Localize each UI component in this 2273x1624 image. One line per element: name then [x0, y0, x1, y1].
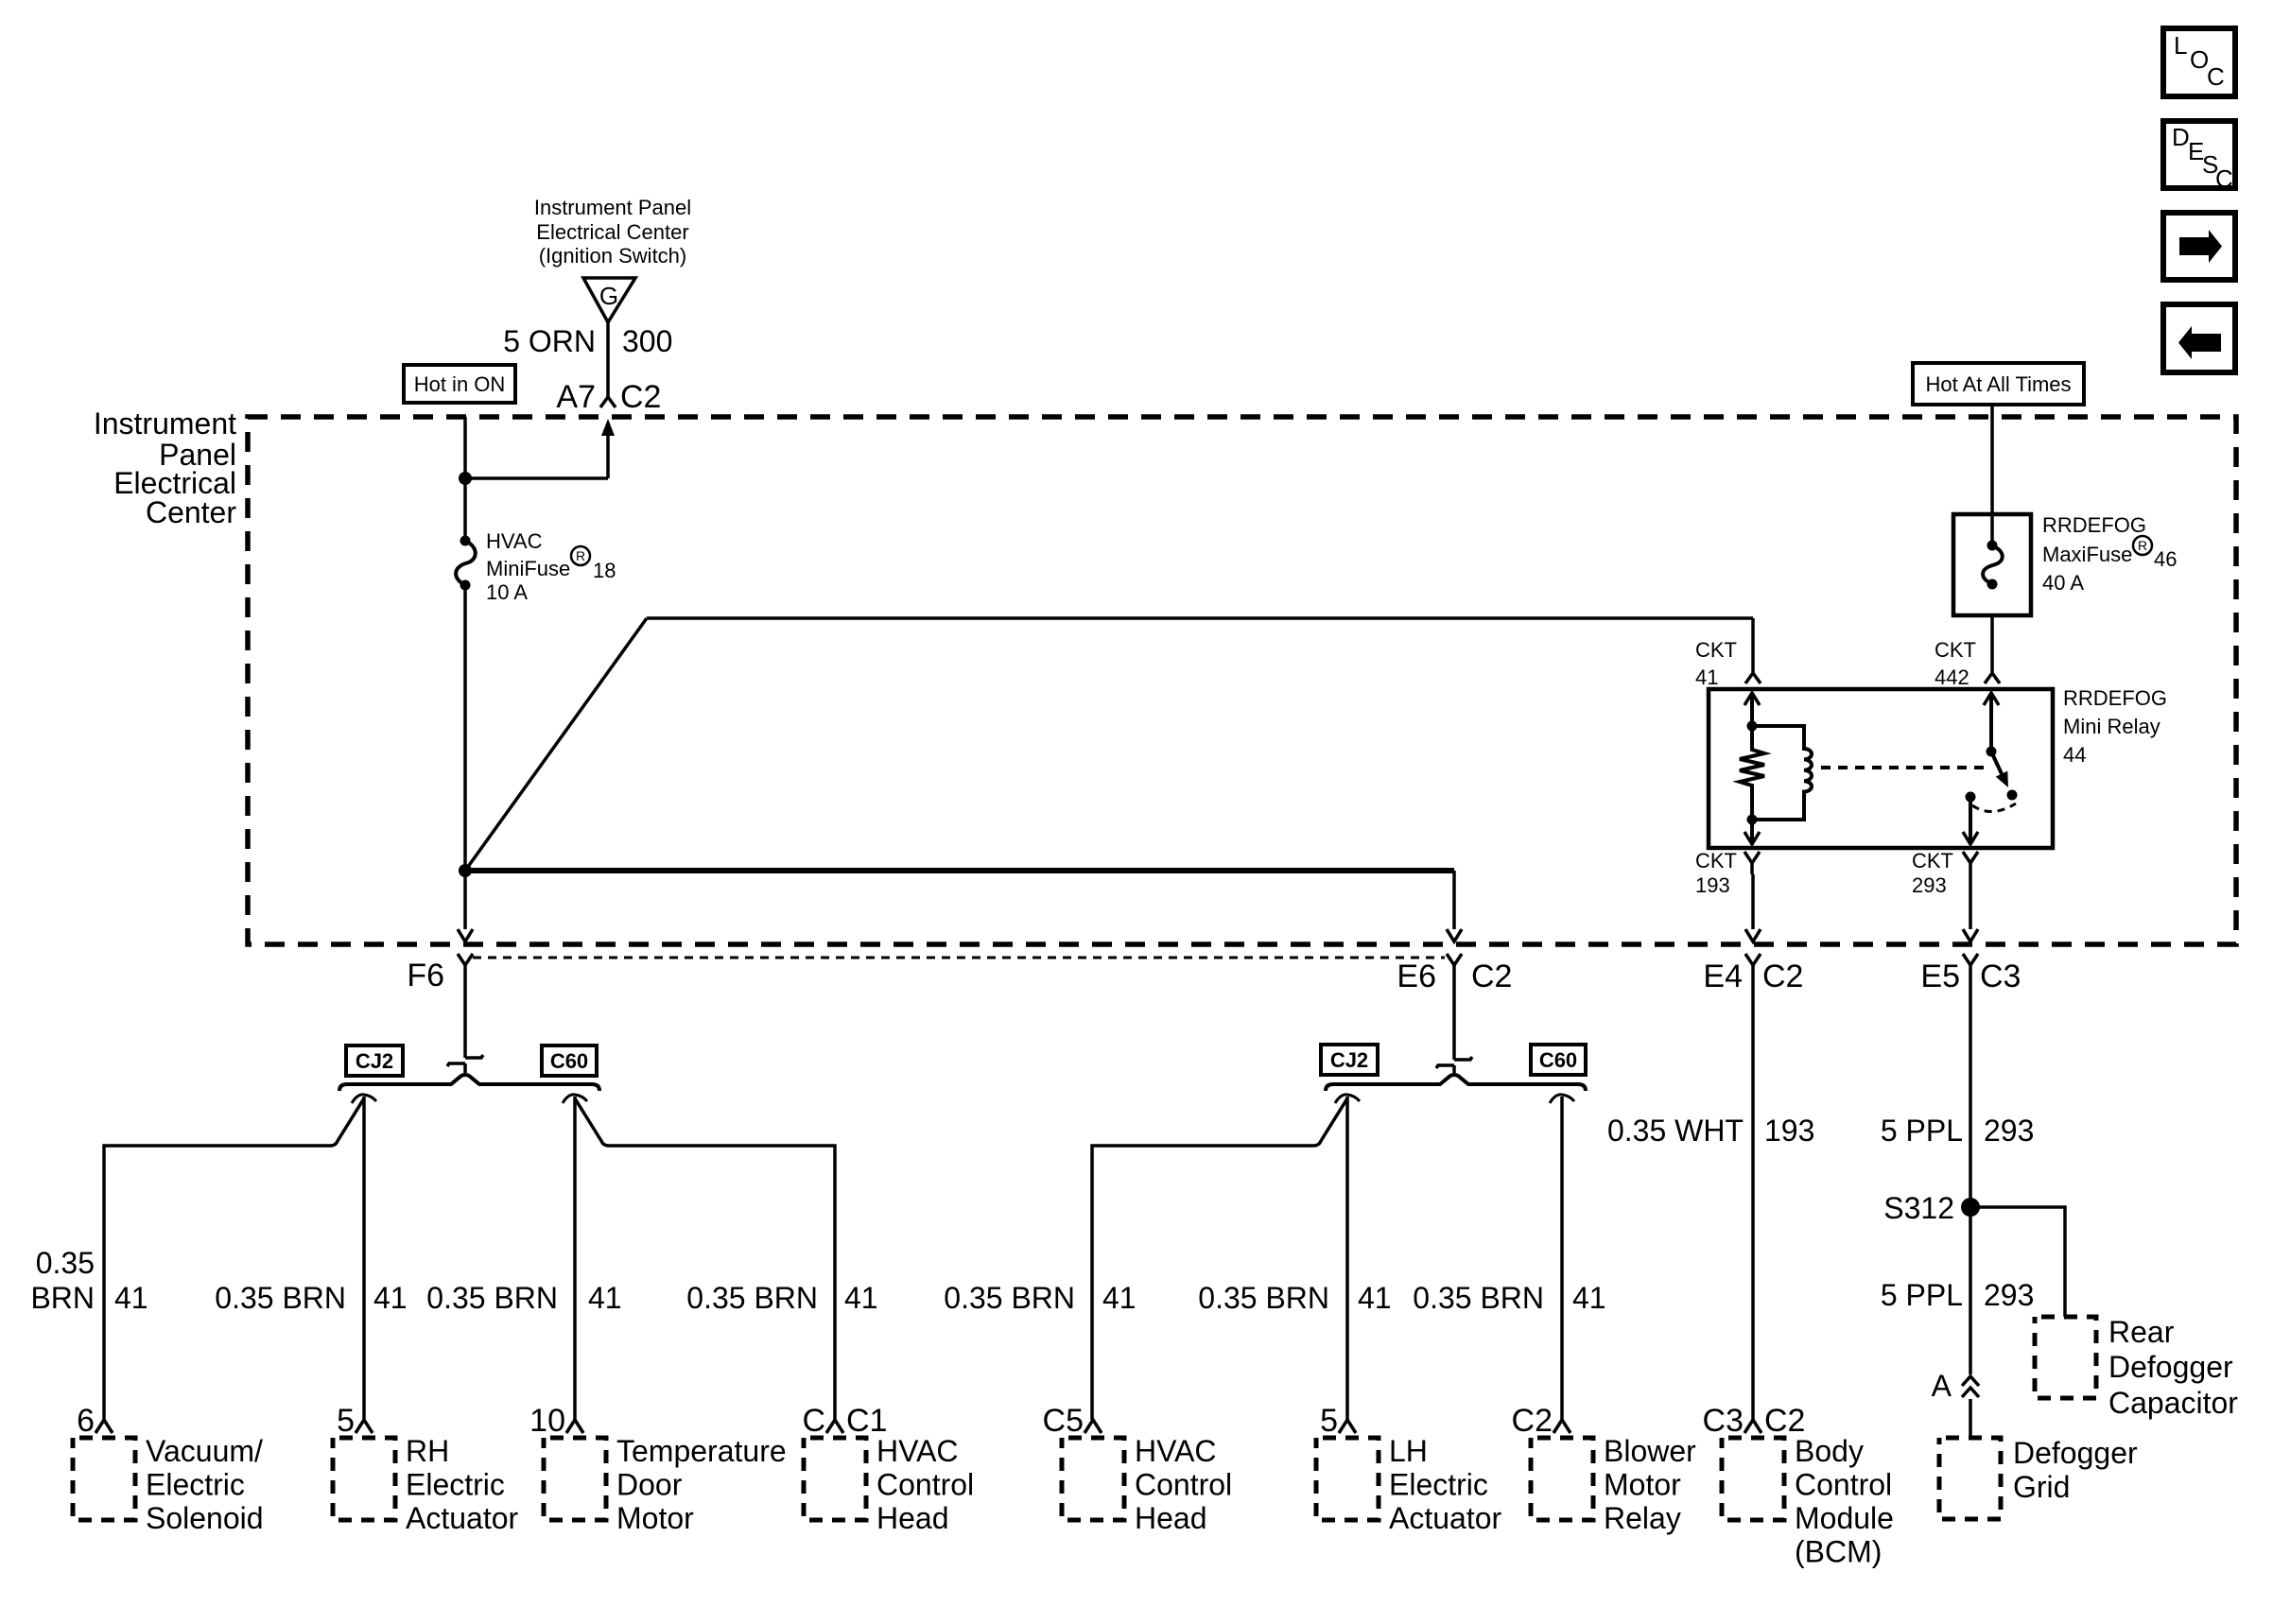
label RRDEFOG MaxiFuse 46 40 A	[2042, 513, 2177, 595]
branch hook LH actuator	[1335, 1095, 1360, 1103]
svg-text:5: 5	[1320, 1403, 1338, 1439]
label CKT 293	[1912, 849, 1953, 897]
wire 300 from G to A7	[606, 322, 610, 397]
label RRDEFOG Mini Relay 44	[2063, 686, 2167, 767]
wire branch to E6	[465, 868, 1454, 873]
wire CKT 41 drop to relay	[1751, 618, 1755, 672]
svg-text:5 PPL: 5 PPL	[1881, 1114, 1963, 1148]
power symbol triangle G	[583, 278, 635, 322]
wire 293 E5 to S312	[1969, 976, 1972, 1207]
relay switch dashed travel arc	[1972, 803, 2016, 812]
svg-text:C: C	[2215, 164, 2233, 193]
label Instrument Panel Electrical Center	[94, 406, 237, 529]
wire CKT 41 diagonal riser	[465, 618, 647, 871]
svg-text:Vacuum/: Vacuum/	[146, 1434, 263, 1468]
svg-text:Hot At All Times: Hot At All Times	[1925, 372, 2071, 396]
svg-text:Head: Head	[876, 1501, 949, 1535]
connector E6/C2	[1447, 954, 1462, 965]
svg-text:300: 300	[622, 324, 672, 358]
svg-text:0.35 BRN: 0.35 BRN	[426, 1281, 558, 1315]
svg-text:CKT: CKT	[1695, 638, 1737, 662]
wire 41 to HVAC control head C5	[1092, 1098, 1347, 1420]
svg-text:41: 41	[844, 1281, 878, 1315]
wire from Hot At All Times to MaxiFuse	[1990, 405, 1994, 541]
label 0.35 BRN 41 (LH actuator)	[1198, 1281, 1391, 1315]
svg-text:10 A: 10 A	[486, 580, 528, 604]
component Defogger Grid pin A	[1939, 1436, 2138, 1519]
svg-text:Defogger: Defogger	[2013, 1436, 2138, 1470]
svg-text:40 A: 40 A	[2042, 571, 2084, 595]
svg-text:BRN: BRN	[30, 1281, 95, 1315]
relay switch pivot dot	[1987, 747, 1997, 757]
wire break to brace	[463, 1063, 467, 1073]
in-line connector break at F6 drop	[465, 1055, 483, 1058]
label box C60 (right)	[1531, 1045, 1586, 1075]
splice brace (left group)	[339, 1075, 599, 1091]
svg-text:0.35 BRN: 0.35 BRN	[686, 1281, 818, 1315]
junction dot splice below fuse	[459, 864, 472, 877]
wire A to defogger grid	[1969, 1399, 1972, 1438]
label CKT 193	[1695, 849, 1737, 897]
branch hook temperature door motor	[563, 1095, 587, 1103]
svg-text:Relay: Relay	[1604, 1501, 1681, 1535]
label 0.35 WHT 193	[1607, 1114, 1814, 1148]
svg-text:D: D	[2172, 123, 2190, 151]
svg-text:Rear: Rear	[2108, 1315, 2175, 1349]
svg-text:G: G	[599, 282, 618, 310]
arrow into electrical center at A7	[601, 419, 615, 436]
connector A7/C2 at IP electrical center	[556, 379, 661, 415]
svg-text:Control: Control	[1795, 1468, 1892, 1502]
wire CKT 41 horizontal run	[647, 616, 1753, 620]
svg-text:Electric: Electric	[146, 1468, 245, 1502]
relay resistor (coil suppression)	[1740, 726, 1764, 820]
wire from fuse F18 to splice	[463, 585, 467, 871]
svg-text:C2: C2	[1471, 959, 1512, 994]
svg-text:Control: Control	[876, 1468, 974, 1502]
svg-text:Hot in ON: Hot in ON	[414, 372, 506, 396]
svg-text:C5: C5	[1043, 1403, 1084, 1439]
svg-text:Electric: Electric	[1389, 1468, 1488, 1502]
svg-text:MaxiFuse: MaxiFuse	[2042, 543, 2132, 566]
wire 41 to HVAC control head C1	[575, 1098, 835, 1420]
svg-text:C60: C60	[1539, 1048, 1577, 1072]
svg-text:RRDEFOG: RRDEFOG	[2042, 513, 2146, 537]
svg-text:C3: C3	[1703, 1403, 1744, 1439]
svg-text:C3: C3	[1980, 959, 2021, 994]
svg-text:(Ignition Switch): (Ignition Switch)	[539, 244, 687, 268]
wire branch to A7 arrow	[465, 476, 608, 480]
component Blower Motor Relay pin C2	[1512, 1403, 1697, 1535]
connector F6	[458, 954, 473, 965]
relay K44 RRDEFOG Mini Relay box	[1709, 689, 2053, 848]
svg-text:41: 41	[588, 1281, 622, 1315]
svg-text:0.35: 0.35	[36, 1246, 95, 1280]
svg-text:R: R	[576, 548, 585, 563]
wire ignition feed from Hot in ON	[463, 417, 467, 537]
Instrument Panel Electrical Center dashed boundary	[248, 417, 2236, 944]
in-line connector A double chevron	[1932, 1369, 1979, 1403]
svg-text:CKT: CKT	[1912, 849, 1953, 872]
svg-text:MiniFuse: MiniFuse	[486, 557, 570, 580]
relay switch common pin	[1984, 693, 1999, 705]
component RH Electric Actuator pin 5	[333, 1403, 519, 1535]
svg-text:HVAC: HVAC	[486, 529, 543, 553]
button next-page right arrow	[2163, 213, 2235, 280]
svg-text:Body: Body	[1795, 1434, 1864, 1468]
svg-text:41: 41	[114, 1281, 148, 1315]
svg-text:Defogger: Defogger	[2108, 1350, 2233, 1384]
relay output arrow down	[1969, 797, 1972, 844]
wire 41 to LH actuator	[1345, 1097, 1349, 1420]
relay switch NC contact dot	[1966, 792, 1976, 803]
label 0.35 BRN 41 (temp door motor)	[426, 1281, 621, 1315]
fuse F18 HVAC MiniFuse 18 10A	[456, 536, 476, 591]
svg-text:0.35 BRN: 0.35 BRN	[1198, 1281, 1329, 1315]
flag box Hot At All Times	[1913, 363, 2084, 405]
label 0.35 BRN 41 (blower motor relay)	[1413, 1281, 1605, 1315]
wire F6 drop	[463, 871, 467, 929]
svg-text:A: A	[1932, 1369, 1952, 1403]
junction dot ignition feed / A7 branch	[459, 472, 472, 485]
svg-text:CJ2: CJ2	[1330, 1048, 1368, 1072]
svg-text:10: 10	[529, 1403, 565, 1439]
label 0.35 BRN 41 (HVAC control head C1)	[686, 1281, 877, 1315]
svg-text:6: 6	[77, 1403, 95, 1439]
svg-text:0.35 BRN: 0.35 BRN	[944, 1281, 1075, 1315]
svg-text:Module: Module	[1795, 1501, 1894, 1535]
relay pin connector CKT 442	[1985, 673, 2000, 683]
fuse box RRDEFOG MaxiFuse 46	[1953, 514, 2031, 615]
label box CJ2 (right)	[1321, 1045, 1378, 1075]
svg-text:Electrical Center: Electrical Center	[536, 220, 688, 244]
svg-text:193: 193	[1695, 873, 1730, 897]
svg-text:41: 41	[1572, 1281, 1606, 1315]
svg-text:L: L	[2174, 31, 2187, 60]
button prev-page left arrow	[2163, 304, 2235, 372]
svg-text:HVAC: HVAC	[876, 1434, 959, 1468]
svg-text:E5: E5	[1920, 959, 1960, 994]
wire 41 to temperature door motor	[573, 1097, 577, 1420]
svg-text:CKT: CKT	[1695, 849, 1737, 872]
label 0.35 BRN 41 (RH actuator)	[215, 1281, 407, 1315]
svg-text:293: 293	[1912, 873, 1947, 897]
wire branch S312 to capacitor	[1970, 1207, 2065, 1317]
arrow at E6 exit	[1447, 929, 1462, 942]
component Temperature Door Motor pin 10	[529, 1403, 786, 1535]
flag box Hot in ON	[404, 365, 515, 403]
svg-text:5 ORN: 5 ORN	[503, 324, 596, 358]
svg-text:Actuator: Actuator	[406, 1501, 519, 1535]
relay switch NO contact dot	[2007, 790, 2018, 801]
label HVAC MiniFuse 18 10 A	[486, 529, 616, 604]
svg-text:Door: Door	[616, 1468, 683, 1502]
svg-text:F6: F6	[407, 958, 444, 993]
svg-text:S312: S312	[1883, 1191, 1954, 1225]
svg-text:Blower: Blower	[1604, 1434, 1696, 1468]
svg-text:R: R	[2138, 538, 2147, 553]
relay coil bottom junction dot	[1747, 815, 1758, 825]
svg-text:C2: C2	[1762, 959, 1803, 994]
relay coil winding	[1752, 726, 1812, 820]
component HVAC Control Head pin C5	[1043, 1403, 1233, 1535]
svg-text:Temperature: Temperature	[616, 1434, 787, 1468]
relay switch arm	[1991, 752, 2004, 778]
fuse F46 element	[1983, 541, 2003, 590]
svg-text:Electric: Electric	[406, 1468, 505, 1502]
svg-text:18: 18	[593, 559, 616, 582]
svg-text:Grid: Grid	[2013, 1470, 2070, 1504]
in-line connector break at E6 drop	[1454, 1057, 1472, 1060]
relay pin connector CKT 293	[1963, 852, 1978, 863]
svg-text:46: 46	[2154, 547, 2177, 571]
splice brace (right group)	[1326, 1075, 1586, 1091]
svg-text:Solenoid: Solenoid	[146, 1501, 264, 1535]
svg-text:41: 41	[1695, 665, 1718, 689]
wire E6 to splice pack	[1452, 976, 1456, 1060]
svg-text:0.35 WHT: 0.35 WHT	[1607, 1114, 1744, 1148]
label 0.35 BRN 41 (HVAC control head C5)	[944, 1281, 1136, 1315]
svg-text:C2: C2	[620, 379, 661, 415]
svg-text:E6: E6	[1397, 959, 1436, 994]
svg-text:E4: E4	[1703, 959, 1743, 994]
svg-text:C: C	[802, 1403, 825, 1439]
wire 41 to RH actuator	[362, 1097, 366, 1420]
relay coil top junction dot	[1747, 721, 1758, 732]
wire 41 to vacuum solenoid	[104, 1098, 364, 1420]
svg-text:HVAC: HVAC	[1135, 1434, 1217, 1468]
component Rear Defogger Capacitor	[2035, 1315, 2238, 1420]
branch hook blower motor relay	[1550, 1095, 1574, 1103]
svg-text:193: 193	[1764, 1114, 1814, 1148]
component HVAC Control Head pin C/C1	[802, 1403, 974, 1535]
svg-text:Motor: Motor	[616, 1501, 694, 1535]
wire 41 to blower motor relay	[1560, 1097, 1564, 1420]
wire 193 to E4	[1751, 874, 1755, 929]
svg-text:Motor: Motor	[1604, 1468, 1681, 1502]
connector E5/C3	[1963, 954, 1978, 965]
svg-text:41: 41	[1102, 1281, 1136, 1315]
label 0.35 BRN 41 (vacuum solenoid)	[30, 1246, 147, 1315]
svg-text:0.35 BRN: 0.35 BRN	[215, 1281, 346, 1315]
splice S312	[1961, 1198, 1980, 1217]
component Body Control Module (BCM) pin C3/C2	[1703, 1403, 1894, 1569]
svg-text:293: 293	[1984, 1278, 2034, 1312]
component Vacuum/Electric Solenoid pin 6	[73, 1403, 264, 1535]
wire F6 to splice pack	[463, 976, 467, 1058]
branch hook RH actuator	[352, 1095, 376, 1103]
svg-text:Mini Relay: Mini Relay	[2063, 715, 2160, 738]
label 5 PPL 293 (lower)	[1881, 1278, 2035, 1312]
svg-text:LH: LH	[1389, 1434, 1428, 1468]
svg-text:442: 442	[1935, 665, 1969, 689]
label CKT 41	[1695, 638, 1737, 689]
svg-text:41: 41	[373, 1281, 408, 1315]
relay pin connector CKT 41	[1745, 673, 1761, 683]
label 5 ORN 300	[503, 324, 672, 358]
label 5 PPL 293 (upper)	[1881, 1114, 2035, 1148]
relay coil pin arrow down	[1750, 820, 1754, 844]
svg-text:CJ2: CJ2	[356, 1049, 393, 1073]
button LOC (schematic locator)	[2163, 28, 2235, 96]
wire 193 E4 to BCM	[1751, 976, 1755, 1420]
wire CKT 442 fuse to relay	[1990, 615, 1994, 672]
svg-text:C2: C2	[1512, 1403, 1553, 1439]
svg-text:C: C	[2207, 62, 2225, 91]
relay pin connector CKT 193	[1744, 852, 1760, 863]
component LH Electric Actuator pin 5	[1316, 1403, 1502, 1535]
svg-text:5: 5	[337, 1403, 355, 1439]
svg-text:Control: Control	[1135, 1468, 1232, 1502]
connector E4/C2	[1745, 954, 1761, 965]
svg-text:Capacitor: Capacitor	[2108, 1386, 2238, 1420]
svg-text:Head: Head	[1135, 1501, 1207, 1535]
svg-text:5 PPL: 5 PPL	[1881, 1278, 1963, 1312]
svg-text:0.35 BRN: 0.35 BRN	[1413, 1281, 1544, 1315]
svg-text:RH: RH	[406, 1434, 449, 1468]
svg-text:Actuator: Actuator	[1389, 1501, 1502, 1535]
label CKT 442	[1935, 638, 1976, 689]
svg-text:Instrument Panel: Instrument Panel	[534, 196, 691, 219]
svg-text:44: 44	[2063, 743, 2086, 767]
label box CJ2 (left)	[346, 1045, 403, 1076]
svg-text:Center: Center	[146, 495, 236, 529]
relay actuation dashed link	[1821, 766, 1984, 769]
label box C60 (left)	[542, 1045, 597, 1076]
svg-text:C60: C60	[550, 1049, 588, 1073]
svg-text:293: 293	[1984, 1114, 2034, 1148]
svg-text:CKT: CKT	[1935, 638, 1976, 662]
thin dashed connector line F6-E6	[473, 957, 1445, 959]
wire S312 to connector A	[1969, 1207, 1972, 1374]
svg-text:RRDEFOG: RRDEFOG	[2063, 686, 2167, 710]
wire break to brace (right)	[1452, 1065, 1456, 1073]
caption Instrument Panel Electrical Center (Ignition Switch)	[534, 196, 691, 268]
arrow at F6 exit	[458, 929, 473, 942]
svg-text:41: 41	[1358, 1281, 1392, 1315]
wire E6 drop	[1452, 871, 1456, 929]
svg-text:(BCM): (BCM)	[1795, 1535, 1882, 1569]
button DESC (description)	[2163, 121, 2235, 193]
svg-text:A7: A7	[556, 379, 596, 415]
relay coil pin arrow up	[1744, 693, 1760, 705]
wire 293 to E5	[1969, 874, 1972, 929]
svg-text:Instrument: Instrument	[94, 406, 236, 441]
